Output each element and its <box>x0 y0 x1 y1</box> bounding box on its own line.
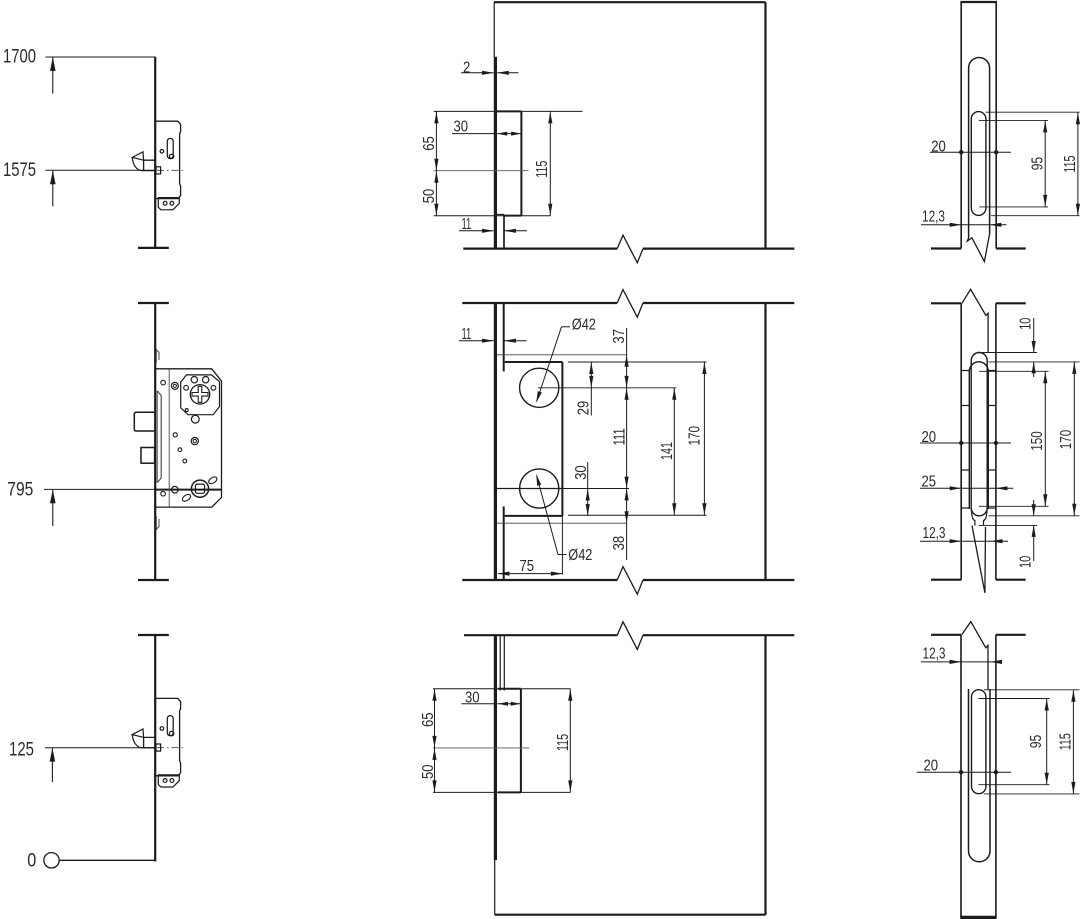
svg-text:Ø42: Ø42 <box>572 316 596 333</box>
svg-text:10: 10 <box>1018 318 1035 330</box>
svg-text:170: 170 <box>687 426 704 446</box>
svg-text:170: 170 <box>1058 430 1075 450</box>
flange hole top <box>161 380 166 385</box>
main lock case <box>156 369 222 507</box>
level line 795 <box>44 488 156 490</box>
bottom fixing bracket <box>158 775 179 787</box>
level line 1575 <box>46 169 157 171</box>
svg-text:12,3: 12,3 <box>923 525 946 542</box>
svg-text:795: 795 <box>7 479 33 501</box>
svg-text:95: 95 <box>1028 735 1045 749</box>
hole circle bottom <box>520 469 559 508</box>
frame profile right edge (top) <box>995 2 997 249</box>
faceplate tab (top view) <box>497 214 504 216</box>
case hole b <box>178 448 182 452</box>
bottom bracket hole 2 <box>170 779 174 783</box>
bottom latch pin <box>156 744 161 751</box>
dimension chain 37/111/38 <box>626 328 628 560</box>
bottom case slot <box>167 716 173 736</box>
frame profile left edge (top) <box>960 2 962 249</box>
rail bottom tick (middle) <box>138 579 169 581</box>
bottom hook bolt <box>132 729 143 737</box>
extension slot centres (bottom) <box>978 698 1049 700</box>
svg-text:1700: 1700 <box>3 46 36 68</box>
frame profile edges (middle) <box>960 303 962 579</box>
arrow 1700 <box>50 57 56 71</box>
extension case top (bottom view) <box>433 688 498 690</box>
svg-text:29: 29 <box>575 401 592 416</box>
outer slot upper arc (middle) <box>969 362 988 509</box>
break sliver (bottom view) <box>962 622 988 690</box>
door faceplate edge (thick) <box>494 57 497 249</box>
break symbol <box>617 235 643 263</box>
svg-text:141: 141 <box>659 442 676 460</box>
extension lines (middle right) <box>979 352 1037 354</box>
extension slot-top centres <box>979 119 1048 121</box>
faceplate edge thick (middle) <box>494 303 497 580</box>
door edge rail (bottom) <box>154 635 156 862</box>
hole circle top <box>520 368 559 407</box>
faceplate tab (bottom view) <box>499 635 501 690</box>
extension line case bottom <box>434 215 504 217</box>
top fixing bracket <box>158 198 179 210</box>
faceplate tab lower (middle) <box>503 506 505 580</box>
break symbol bottom <box>617 567 643 595</box>
level line 1700 <box>46 56 156 58</box>
extension case bottom (bottom view) <box>433 791 498 793</box>
cylinder plate hole 1 <box>191 377 197 383</box>
keep pocket bottom line <box>497 522 627 524</box>
svg-text:12,3: 12,3 <box>923 646 946 663</box>
datum circle 0 <box>44 853 59 868</box>
door edge rail (top) <box>154 57 156 248</box>
bottom bolt base <box>144 737 155 747</box>
flange screw bottom <box>172 486 179 493</box>
cylinder plate <box>181 375 220 415</box>
hole centre line top <box>538 387 676 389</box>
svg-text:10: 10 <box>1018 556 1035 568</box>
svg-text:12,3: 12,3 <box>922 209 945 226</box>
top case hole <box>160 150 164 154</box>
frame bottom line (top view) <box>931 247 961 249</box>
door bottom line (middle view) <box>462 579 617 581</box>
svg-text:111: 111 <box>612 428 629 445</box>
door panel top edge <box>494 1 766 3</box>
door panel left edge upper <box>493 2 495 57</box>
top bracket hole 2 <box>170 201 174 205</box>
upper latch bolt <box>134 412 154 431</box>
keep pocket top line <box>497 354 627 356</box>
door top line (bottom view) <box>464 634 617 636</box>
cylinder plate hole 3 <box>184 385 189 390</box>
bottom slot end circle <box>169 731 173 735</box>
door panel right edge <box>764 2 766 248</box>
svg-text:150: 150 <box>1029 431 1046 451</box>
faceplate slot (middle) <box>157 391 161 483</box>
top bolt base <box>144 160 155 170</box>
lower latch bolt <box>141 448 155 464</box>
bottom bracket hole 1 <box>163 779 167 783</box>
faceplate tab upper (middle) <box>503 303 505 371</box>
break sliver (middle top) <box>962 289 988 352</box>
frame bottom line (middle view) <box>931 579 961 581</box>
arrow 125 <box>50 748 56 762</box>
svg-text:38: 38 <box>611 536 628 551</box>
centre line (bottom lock) <box>157 747 184 749</box>
top bracket hole 1 <box>163 201 167 205</box>
case edge extension down <box>561 516 563 575</box>
flange screw top <box>171 382 178 389</box>
door bottom line (top view) <box>463 248 617 250</box>
centre line (top lock) <box>157 169 183 171</box>
screw head <box>191 438 198 445</box>
svg-text:2: 2 <box>463 59 470 76</box>
extension line case top <box>434 110 497 112</box>
svg-text:11: 11 <box>462 216 472 233</box>
top case slot <box>167 138 173 158</box>
svg-text:65: 65 <box>421 136 438 151</box>
rail bottom tick <box>138 247 169 249</box>
cylinder plate hole 2 <box>203 377 209 383</box>
svg-text:0: 0 <box>27 850 36 872</box>
rail top tick (middle) <box>138 302 169 304</box>
svg-text:20: 20 <box>922 429 937 446</box>
bottom lock case <box>156 698 181 775</box>
centre line 125 level <box>433 747 529 749</box>
follower slot lower <box>181 493 192 503</box>
arrow 795 <box>50 490 56 504</box>
hole centre line bottom <box>495 488 563 490</box>
top latch pin <box>156 167 161 174</box>
svg-text:115: 115 <box>1062 155 1079 172</box>
spindle follower <box>191 480 208 497</box>
frame profile top edge <box>960 1 997 3</box>
case hole a <box>173 433 177 437</box>
svg-text:1575: 1575 <box>3 159 36 181</box>
svg-text:115: 115 <box>555 734 572 751</box>
door right edge (middle) <box>764 303 766 580</box>
faceplate edge thick (bottom) <box>494 635 497 860</box>
hole below plate <box>191 415 199 423</box>
svg-text:20: 20 <box>931 138 946 155</box>
frame bottom thick bar <box>960 916 997 919</box>
neck below keep slot <box>971 510 975 526</box>
extension slot ends (bottom) <box>984 689 1080 691</box>
flange hole bottom <box>161 491 166 496</box>
rail top tick (bottom) <box>138 634 169 636</box>
faceplate tab upper <box>156 350 159 364</box>
break sliver (top view bottom) <box>967 235 989 262</box>
lock case side view (bottom) <box>498 688 521 690</box>
outer slot (bottom view) <box>969 689 991 862</box>
outer slot (top view) <box>969 58 990 239</box>
extension slot ends <box>986 111 1080 113</box>
inner slot (top view) <box>971 112 986 216</box>
break symbol (bottom view) <box>617 622 643 650</box>
svg-text:115: 115 <box>1057 733 1074 750</box>
case hole c <box>183 459 187 463</box>
keep slot (middle) <box>971 353 987 516</box>
break symbol top <box>617 290 643 318</box>
door top line (middle view) <box>462 302 617 304</box>
bottom case hole <box>160 727 164 731</box>
retaining tab marks <box>961 370 969 372</box>
top lock case <box>156 121 181 198</box>
level line 0 <box>59 859 156 861</box>
main lock case side view <box>505 361 563 363</box>
cylinder plate hole 4 <box>211 385 216 390</box>
frame profile edges (bottom) <box>960 635 962 917</box>
follower slot upper <box>207 476 218 486</box>
arrow 1575 <box>50 171 56 185</box>
level line 125 <box>45 747 156 749</box>
svg-text:95: 95 <box>1030 157 1047 171</box>
lock case side view (top) <box>497 110 521 112</box>
door edge rail (middle) <box>154 303 156 580</box>
faceplate tab lower <box>156 516 159 530</box>
door left edge lower <box>494 860 496 915</box>
break sliver (middle bottom) <box>972 526 986 593</box>
case inner edge <box>168 369 170 507</box>
case top extension <box>568 361 707 363</box>
door right edge (bottom) <box>764 635 766 915</box>
frame top line (middle view) <box>931 302 961 304</box>
svg-text:Ø42: Ø42 <box>568 547 592 564</box>
svg-text:50: 50 <box>421 189 438 204</box>
svg-text:125: 125 <box>9 739 34 761</box>
bottom lock unit <box>132 698 180 787</box>
inner slot (bottom view) <box>972 690 986 794</box>
top slot end circle <box>169 154 173 158</box>
svg-text:30: 30 <box>454 119 469 136</box>
case bottom extension <box>568 514 707 516</box>
top hook bolt <box>132 152 143 160</box>
phillips screw <box>190 385 209 404</box>
svg-text:75: 75 <box>520 558 535 575</box>
door bottom edge <box>495 914 766 916</box>
svg-text:115: 115 <box>534 161 551 178</box>
plate pin hole <box>185 409 188 412</box>
centre line 1575 level <box>434 170 529 172</box>
svg-text:37: 37 <box>611 329 628 344</box>
frame top line (bottom view) <box>931 634 961 636</box>
